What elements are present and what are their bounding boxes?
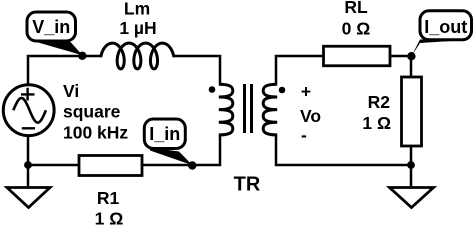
svg-text:1 µH: 1 µH bbox=[119, 18, 156, 38]
svg-text:square: square bbox=[63, 102, 121, 122]
source plus sign bbox=[21, 88, 35, 101]
svg-text:0 Ω: 0 Ω bbox=[342, 19, 371, 39]
ground right bbox=[390, 188, 434, 208]
svg-text:100 kHz: 100 kHz bbox=[63, 122, 128, 142]
svg-text:Vi: Vi bbox=[63, 81, 79, 101]
svg-text:1 Ω: 1 Ω bbox=[362, 113, 391, 133]
transformer TR secondary winding bbox=[263, 84, 277, 135]
wire: primary bottom to I_in tap and R1 bbox=[142, 135, 220, 165]
label Vi square 100 kHz bbox=[63, 81, 128, 142]
svg-text:1 Ω: 1 Ω bbox=[95, 209, 124, 226]
svg-text:R2: R2 bbox=[368, 92, 391, 112]
wire: R2 bottom to ground node bbox=[410, 146, 413, 165]
wire: stub to left ground bbox=[27, 165, 30, 188]
voltage source Vi bbox=[3, 85, 54, 136]
node: right ground junction dot bbox=[407, 161, 415, 169]
resistor R2 bbox=[402, 77, 422, 146]
wire: left top from source up and right to V_in tap bbox=[28, 56, 101, 85]
node V_in tap dot bbox=[78, 52, 86, 60]
svg-text:Lm: Lm bbox=[124, 0, 150, 19]
probe label V_in bbox=[27, 12, 83, 55]
svg-text:RL: RL bbox=[344, 0, 368, 17]
resistor R1 bbox=[79, 156, 142, 176]
polarity dot secondary bbox=[279, 87, 286, 94]
transformer core bbox=[245, 84, 252, 133]
svg-text:I_out: I_out bbox=[424, 17, 467, 37]
inductor Lm bbox=[101, 43, 174, 69]
node: source bottom junction dot bbox=[24, 161, 32, 169]
node I_in tap dot bbox=[188, 161, 196, 169]
resistor RL bbox=[324, 46, 391, 66]
probe label I_out bbox=[412, 11, 472, 56]
wire: stub to right ground bbox=[410, 165, 413, 188]
wire: secondary top to RL bbox=[276, 56, 324, 84]
source minus sign bbox=[22, 127, 35, 129]
svg-text:R1: R1 bbox=[97, 188, 120, 208]
wire: RL to I_out tap bbox=[390, 55, 411, 58]
wire: I_out tap down to R2 bbox=[410, 56, 413, 77]
polarity dot primary bbox=[209, 86, 216, 93]
wire: Lm to transformer primary top bbox=[174, 56, 220, 84]
svg-text:+: + bbox=[301, 82, 311, 102]
source sine wave bbox=[13, 98, 46, 123]
probe label I_in bbox=[144, 119, 192, 165]
svg-text:-: - bbox=[301, 125, 307, 145]
wire: R1 to source bottom node bbox=[28, 135, 79, 165]
wire: secondary bottom to right ground node bbox=[276, 135, 411, 165]
svg-text:V_in: V_in bbox=[32, 17, 70, 37]
ground left bbox=[7, 188, 50, 208]
svg-text:TR: TR bbox=[234, 174, 261, 196]
svg-text:Vo: Vo bbox=[300, 106, 321, 126]
svg-text:I_in: I_in bbox=[149, 124, 180, 144]
transformer TR primary winding bbox=[219, 84, 233, 135]
node I_out tap dot bbox=[407, 52, 415, 60]
